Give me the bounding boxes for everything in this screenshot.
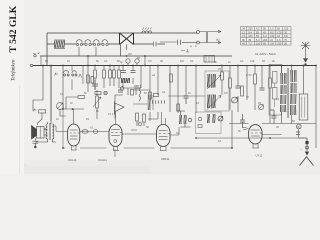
mains transformer primary	[280, 66, 288, 124]
resistor R13	[177, 104, 180, 111]
oscillator coil L4	[148, 95, 165, 110]
IF transformer T3	[177, 111, 192, 127]
wire: band chain y=44	[47, 43, 165, 45]
speaker LS	[32, 126, 45, 141]
label V2	[98, 158, 107, 162]
wire x=97 trimmer drop	[96, 90, 98, 119]
title label: Telefunken T 542 GLK (rotated)	[8, 5, 19, 81]
IF1 drops	[178, 66, 196, 114]
svg-text:2,1: 2,1	[242, 34, 246, 38]
svg-text:0,5: 0,5	[224, 91, 228, 95]
ballast resistor box	[299, 94, 308, 120]
svg-text:220: 220	[248, 27, 253, 31]
svg-text:5,4: 5,4	[256, 38, 260, 42]
svg-text:8,5: 8,5	[270, 30, 274, 34]
svg-text:für 220V~ 50Hz: für 220V~ 50Hz	[255, 52, 276, 56]
vertical wires from bus D	[33, 56, 316, 148]
resistor R6 horizontal	[78, 96, 85, 99]
terminal A2	[160, 32, 221, 45]
voltage table	[241, 27, 292, 46]
table cell text marks	[242, 27, 289, 46]
IF coil small T2b	[207, 114, 223, 123]
components above V3	[131, 113, 145, 130]
capacitor C10	[184, 96, 189, 104]
svg-text:aΩ: aΩ	[216, 38, 219, 42]
svg-text:2M: 2M	[128, 52, 132, 56]
tube V1 UCL11	[68, 124, 80, 150]
small circle node G2	[135, 59, 139, 66]
svg-text:T 542 GLK: T 542 GLK	[8, 5, 19, 52]
resistor R5	[118, 70, 121, 78]
resistor R11 speaker feed	[33, 109, 46, 126]
paper background	[0, 0, 320, 174]
svg-text:0,1: 0,1	[190, 59, 194, 63]
svg-text:0,1: 0,1	[276, 97, 280, 101]
svg-text:0,1: 0,1	[90, 126, 94, 130]
resistor R12	[170, 74, 173, 82]
tube V3 UBF11	[157, 112, 171, 151]
capacitor C8	[118, 90, 123, 92]
capacitor C11	[236, 86, 241, 88]
pennant above V2	[115, 102, 125, 115]
mains cord symbol	[300, 138, 314, 166]
contact pair row left	[55, 66, 94, 91]
capacitor C3	[153, 42, 159, 47]
svg-text:200: 200	[263, 38, 268, 42]
V3 couple	[116, 66, 171, 135]
scattered value labels	[44, 52, 302, 151]
wire x=88 down	[87, 56, 89, 92]
lamp right	[296, 124, 307, 138]
resistor R2	[103, 70, 106, 78]
wire: top horizontal run y=33	[47, 32, 197, 34]
wire x=95..119 resistor drops	[95, 66, 119, 71]
capacitor C12	[260, 88, 265, 90]
wire: bus D y=65.5	[33, 65, 316, 67]
tube V2 UCH11	[109, 118, 122, 151]
svg-text:175: 175	[277, 30, 282, 34]
svg-text:3,8: 3,8	[270, 42, 274, 46]
output transformer Tr2	[35, 66, 56, 143]
wire x=51 to output transformer	[50, 66, 52, 122]
caps bottom right	[296, 132, 300, 135]
svg-text:UCL11: UCL11	[68, 158, 77, 162]
resistor R10	[269, 78, 272, 88]
flex lead squiggle	[133, 85, 150, 104]
IF transformer T1 upper	[207, 74, 221, 89]
svg-text:0,1: 0,1	[218, 139, 222, 143]
left input terminal 2	[30, 64, 32, 66]
choke box right	[269, 65, 282, 116]
IF can box 2	[196, 112, 222, 134]
note text under table	[255, 52, 276, 56]
svg-text:0,5: 0,5	[60, 92, 64, 96]
switch contact S1b	[85, 40, 91, 46]
wires mixer cluster	[123, 56, 145, 88]
parts right of V2 top	[149, 92, 159, 99]
capacitor C7 mixer	[131, 71, 136, 73]
switch contact S1a	[76, 40, 82, 46]
svg-text:240: 240	[270, 34, 275, 38]
svg-text:7,2: 7,2	[248, 42, 252, 46]
svg-text:0,1: 0,1	[240, 59, 244, 63]
svg-text:110: 110	[256, 42, 261, 46]
svg-text:4,2: 4,2	[256, 27, 260, 31]
switch contact S1c	[93, 40, 99, 46]
capacitor C9	[134, 86, 139, 88]
svg-text:0,8: 0,8	[284, 34, 288, 38]
svg-text:230: 230	[277, 42, 282, 46]
capacitor C4	[92, 80, 98, 90]
caps near V4	[240, 110, 277, 128]
svg-text:0,5: 0,5	[148, 59, 152, 63]
wire x=66 resistor branch	[66, 97, 78, 109]
svg-text:0,4: 0,4	[248, 30, 252, 34]
IF transformer T2 lower	[207, 95, 221, 110]
trimmer C5	[93, 96, 101, 108]
terminal A1	[197, 30, 221, 33]
node labels near terminals	[181, 38, 219, 53]
right section drops	[247, 66, 270, 124]
IF can box	[205, 71, 229, 111]
label V3	[161, 157, 170, 161]
svg-text:100: 100	[248, 34, 253, 38]
mains transformer secondary	[288, 66, 297, 124]
svg-text:215: 215	[284, 27, 289, 31]
svg-text:UY11: UY11	[256, 154, 263, 158]
wire: left vertical x=47	[46, 33, 48, 66]
resistor R8	[229, 78, 232, 88]
resistor R3	[109, 70, 112, 78]
svg-text:Telefunken: Telefunken	[12, 59, 17, 81]
resistor R7	[221, 72, 224, 80]
pot P3	[258, 104, 263, 109]
filter box F1	[204, 56, 215, 63]
tuning gang C2 (crossed bowtie)	[120, 33, 134, 56]
label V1	[68, 158, 77, 162]
svg-text:0,1: 0,1	[162, 90, 166, 94]
svg-text:10·1,5: 10·1,5	[108, 112, 116, 116]
left input terminal 1	[33, 53, 41, 66]
svg-text:P-5V: P-5V	[246, 73, 252, 77]
wire: bus C y=56	[40, 55, 232, 57]
capacitor C6 mixer	[121, 71, 126, 73]
resistor R1 row under bus	[94, 70, 97, 78]
wire x=43 down-left to speaker branch	[33, 66, 43, 111]
oscillator coil drops	[148, 66, 158, 122]
svg-text:UCH11: UCH11	[98, 158, 107, 162]
svg-text:6,3: 6,3	[263, 34, 267, 38]
resistor R4	[113, 70, 116, 78]
coil L2	[142, 28, 152, 34]
coil L1 antenna choke	[54, 40, 65, 49]
wire x=63 to V1 region	[63, 66, 84, 125]
parts left of V2 top	[95, 91, 107, 94]
wire bottom mid horizontals	[63, 96, 316, 157]
svg-text:10k: 10k	[250, 59, 255, 63]
svg-text:1,6: 1,6	[277, 38, 281, 42]
small circle node G1	[126, 59, 130, 66]
svg-text:1,2: 1,2	[270, 27, 274, 31]
label V4	[256, 154, 263, 158]
svg-text:UBF11: UBF11	[161, 157, 170, 161]
resistor R9	[254, 74, 257, 84]
tube V4 UY11	[243, 125, 262, 148]
pot P2 volume	[232, 86, 244, 103]
coupling parts between V1 V2	[56, 126, 109, 134]
coil L3 mixer (dark)	[121, 78, 130, 83]
svg-text:0,1: 0,1	[104, 59, 108, 63]
svg-text:Tr: Tr	[44, 127, 46, 131]
capacitor C13 below speaker	[33, 141, 39, 148]
detector drops	[222, 66, 238, 113]
antenna symbol top right	[301, 42, 310, 65]
switch contact S1d	[102, 40, 108, 46]
trimmer circle mixer	[120, 87, 133, 95]
pot P1 with arrow	[57, 103, 66, 116]
svg-text:1M: 1M	[180, 59, 184, 63]
